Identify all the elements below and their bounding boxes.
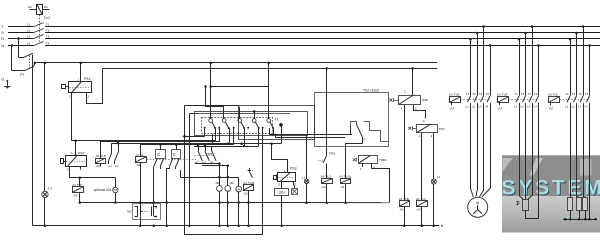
node PT pole2 output — [34, 62, 37, 65]
svg-text:2: 2 — [278, 182, 280, 186]
svg-text:PS3: PS3 — [290, 167, 296, 171]
svg-text:TLG: TLG — [44, 16, 51, 20]
svg-text:L1: L1 — [27, 22, 31, 26]
svg-text:T1: T1 — [46, 22, 50, 26]
svg-text:T2: T2 — [572, 92, 576, 96]
wire heater bottom bus — [563, 219, 597, 221]
TRBs pin 1 — [362, 163, 364, 167]
wire rail B to TRS — [326, 68, 328, 155]
push button PB — [115, 178, 117, 188]
wire selector left feed — [350, 127, 352, 135]
pressure switch PS2 — [66, 156, 87, 167]
svg-text:L1: L1 — [302, 175, 306, 179]
wire T1 node down — [281, 127, 283, 144]
wire PH outputs — [195, 163, 219, 165]
svg-text:2: 2 — [67, 167, 69, 171]
contactor TLR tap wires from bus — [518, 38, 521, 41]
svg-text:L4: L4 — [585, 105, 589, 109]
svg-text:A1: A1 — [44, 5, 48, 9]
svg-text:L2: L2 — [437, 175, 441, 179]
wire TLP lower coil to rail — [79, 192, 81, 202]
wire IGN to N rail — [281, 195, 283, 226]
wire L1 lamp branch — [44, 63, 46, 191]
svg-text:TRS: TRS — [329, 152, 335, 156]
svg-text:L2: L2 — [27, 28, 31, 32]
outline box B around terminal strip — [239, 106, 315, 140]
TRBs pin 2 wire to rail end — [371, 163, 373, 168]
switch PT pole 1 — [19, 57, 24, 59]
box TS2 circuit — [315, 93, 389, 147]
wire TLGs feed — [345, 144, 347, 179]
svg-text:C: C — [157, 152, 160, 157]
wire PS2 pin2 to TLP coil and PB branch — [70, 167, 116, 178]
svg-text:MF: MF — [230, 181, 234, 185]
wire mesh rail to PS2 (y=140.7) — [72, 140, 215, 142]
svg-text:L1: L1 — [109, 164, 113, 168]
svg-text:T4: T4 — [485, 92, 489, 96]
wire mesh rail to BL coil and C contacts (y=144.5) — [140, 144, 234, 146]
svg-text:T4: T4 — [585, 92, 589, 96]
svg-text:L1: L1 — [514, 105, 518, 109]
svg-text:R: R — [1, 37, 4, 41]
junction rail A / strip wire 1 — [209, 62, 212, 65]
svg-text:L3: L3 — [527, 105, 531, 109]
outer enclosure frame left/top — [185, 105, 239, 107]
svg-text:T4: T4 — [46, 41, 50, 45]
indicator ML — [219, 164, 221, 186]
svg-text:L2: L2 — [521, 105, 525, 109]
svg-text:L4: L4 — [27, 41, 31, 45]
junction rail A / strip wire 5 — [267, 62, 270, 65]
wire control rail A (y=62.9) — [35, 62, 437, 64]
wire TRB pin1 to TLB coil — [404, 105, 406, 201]
junction rail A / PS1 — [80, 62, 83, 65]
svg-text:ML: ML — [216, 181, 220, 185]
wire selector output to TLGs rail — [362, 137, 364, 144]
svg-text:1: 1 — [360, 167, 362, 171]
wire PT pole1 output down — [32, 55, 34, 226]
svg-text:T3: T3 — [527, 92, 531, 96]
svg-text:A2: A2 — [136, 163, 140, 167]
wire mesh rail into TS2 box (y=137.6) — [275, 137, 345, 139]
wire rail A to PS1 pin 1 — [80, 63, 82, 82]
svg-text:2: 2 — [415, 106, 417, 110]
outline box A around terminal strip — [195, 112, 308, 136]
svg-text:T: T — [1, 25, 4, 29]
svg-text:T1: T1 — [565, 92, 569, 96]
svg-text:T1: T1 — [466, 92, 470, 96]
switch PT pole 2 — [12, 70, 25, 72]
svg-text:A2: A2 — [341, 185, 345, 189]
heater resistor R1 — [568, 198, 573, 211]
svg-text:T2: T2 — [472, 92, 476, 96]
svg-text:A1 TLG: A1 TLG — [321, 175, 332, 179]
switch C1 — [156, 150, 166, 159]
svg-text:T1: T1 — [514, 92, 518, 96]
contactor TLV tap wires from bus — [569, 38, 572, 41]
wires TLB contacts to motor — [470, 103, 472, 188]
timer TRBs — [353, 158, 356, 161]
float switch PH — [198, 146, 200, 151]
junction on bus N — [11, 44, 14, 47]
burner element box — [523, 200, 529, 211]
svg-text:L4: L4 — [534, 105, 538, 109]
svg-text:L2: L2 — [572, 105, 576, 109]
svg-text:L2: L2 — [472, 105, 476, 109]
svg-text:L3: L3 — [479, 105, 483, 109]
wires TLV contacts down — [570, 104, 572, 198]
svg-text:3: 3 — [87, 94, 89, 98]
svg-text:L3: L3 — [578, 105, 582, 109]
svg-text:M: M — [476, 201, 479, 205]
svg-text:L2: L2 — [115, 164, 119, 168]
motor M — [468, 197, 488, 217]
dashed terminal strip box X1 — [202, 118, 273, 134]
svg-text:T1: T1 — [275, 117, 279, 121]
wire selector right terminal jog — [370, 126, 389, 142]
wire mesh rail to U-loop (y=136.2) — [183, 136, 205, 138]
switch C2 — [172, 150, 181, 159]
junction rail A / L1 branch — [44, 62, 47, 65]
svg-text:PB: PB — [114, 189, 118, 192]
svg-text:N: N — [1, 44, 4, 48]
capacitor C2 — [144, 211, 149, 213]
outline segment C above strip — [198, 113, 290, 115]
wire R tap down to PT — [18, 39, 20, 58]
switch C2 contacts — [170, 159, 173, 167]
strip lower terminal posts — [204, 127, 206, 129]
contactor TLB tap wires from bus — [469, 38, 472, 41]
svg-text:TS2 circuit: TS2 circuit — [363, 89, 379, 93]
mechanical link PT (dashed) — [29, 56, 31, 70]
svg-text:*: * — [252, 169, 254, 173]
mechanical link TLV (dashed) — [560, 99, 589, 101]
svg-text:S: S — [1, 31, 4, 35]
heater resistor R3 — [583, 198, 588, 211]
svg-text:IGN: IGN — [279, 190, 285, 194]
wire to PS2 pin 1 — [75, 141, 77, 155]
svg-text:M: M — [155, 207, 157, 210]
wire lamp branch vertical x=306.6 — [306, 134, 308, 179]
terminal strip contacts 1-5 — [209, 119, 213, 123]
svg-text:A2: A2 — [74, 194, 78, 198]
svg-text:C: C — [423, 119, 426, 123]
svg-text:L3: L3 — [27, 34, 31, 38]
wire mesh rail to TLP contacts (y=143.1) — [112, 143, 230, 145]
svg-text:2: 2 — [431, 134, 433, 138]
svg-text:L1: L1 — [466, 105, 470, 109]
svg-text:L1: L1 — [48, 186, 52, 190]
indicator PBL — [238, 177, 240, 186]
svg-text:C: C — [404, 89, 407, 93]
svg-text:T3: T3 — [479, 92, 483, 96]
contactor coil TLG — [37, 5, 43, 15]
svg-text:1: 1 — [400, 106, 402, 110]
svg-text:A2: A2 — [498, 106, 502, 110]
switch C1 contacts — [154, 159, 157, 167]
capacitor C1 (in BL branch) — [135, 206, 138, 208]
svg-text:A2: A2 — [28, 5, 32, 9]
svg-text:1: 1 — [419, 134, 421, 138]
ignition box IGN — [275, 189, 289, 196]
wire control rail B (y=68.4) — [103, 68, 438, 70]
svg-text:A2: A2 — [96, 164, 100, 168]
wire rail to BL coil — [140, 145, 142, 157]
svg-text:A2: A2 — [400, 208, 404, 212]
wire L1 lamp to N return — [44, 198, 46, 226]
svg-text:T3: T3 — [578, 92, 582, 96]
wire strip feed rail y=86.5 — [210, 86, 269, 88]
svg-text:PT: PT — [20, 73, 24, 77]
svg-text:A2: A2 — [549, 106, 553, 110]
wire N return rail (y=225.8) — [33, 225, 440, 227]
svg-text:T4: T4 — [534, 92, 538, 96]
svg-text:SYSTEM: SYSTEM — [502, 177, 600, 200]
svg-text:A1 TLV: A1 TLV — [548, 93, 559, 97]
wire mesh rail into TS2 box (y=134.7) — [270, 134, 352, 136]
lamp L2 — [431, 179, 436, 184]
mechanical link BL to C contacts (dashed) — [147, 159, 196, 161]
selector switch C in TS2 — [351, 122, 357, 127]
svg-text:MC: MC — [127, 209, 132, 213]
filter block MCT outline — [133, 204, 161, 220]
wire rail to TLP coil — [100, 142, 102, 158]
svg-text:N: N — [441, 224, 444, 228]
svg-text:L1: L1 — [565, 105, 569, 109]
wire control return rail (y=202.6) — [80, 202, 390, 204]
bus line T with TLG contact L1-T1 — [8, 26, 33, 28]
wire mesh rail y=143.7 from staircase to T1 wire — [213, 143, 281, 145]
wire BL coil down through capacitor to N — [140, 162, 142, 207]
svg-text:L4: L4 — [485, 105, 489, 109]
valve glyph — [516, 201, 519, 203]
heater resistor R2 — [577, 198, 582, 211]
svg-text:TRB: TRB — [422, 98, 428, 102]
svg-text:>>1: >>1 — [318, 159, 324, 163]
wire mesh rail to PH (y=146.0) — [194, 146, 259, 148]
wire T1 rail to PS3 — [272, 144, 288, 173]
wire rail B to TRB — [412, 68, 414, 95]
svg-text:A2: A2 — [322, 185, 326, 189]
mechanical link TLR (dashed) — [509, 99, 538, 101]
junction rail B / TRS branch — [325, 67, 328, 70]
svg-text:2: 2 — [69, 95, 71, 99]
mechanical link TLG (dashed) — [39, 15, 41, 44]
svg-text:TRBs: TRBs — [379, 158, 387, 162]
strip feed wire contact 2 — [206, 87, 224, 119]
svg-text:optional 004: optional 004 — [94, 188, 112, 192]
svg-text:A2: A2 — [244, 192, 248, 196]
mechanical link TLB (dashed) — [461, 99, 489, 101]
lamp L1 — [42, 191, 48, 197]
contact TLM aux — [249, 168, 251, 171]
svg-text:C: C — [363, 138, 366, 142]
wire mesh rail to TLP coil (y=141.9) — [100, 141, 219, 143]
strip feed wires from rail A — [210, 63, 212, 119]
svg-text:A1 TLR: A1 TLR — [497, 93, 508, 97]
pressure switch PS1 — [69, 82, 92, 93]
wire lamp to rail — [306, 184, 308, 203]
strip feed wire contact 4 — [254, 112, 256, 119]
svg-text:A2: A2 — [417, 208, 421, 212]
wires resistors to bottom bus — [570, 210, 572, 219]
inner frame left wire to N rail — [189, 114, 191, 226]
svg-text:C: C — [173, 152, 176, 157]
contact TLP aux 2 — [118, 143, 120, 153]
svg-text:M: M — [155, 215, 157, 218]
svg-text:T2: T2 — [521, 92, 525, 96]
junction rail B / TRB branch — [411, 67, 414, 70]
svg-text:1: 1 — [71, 151, 73, 155]
enclosure frame left leg down to bottom — [185, 106, 263, 235]
wires TLR contacts down — [519, 103, 521, 195]
svg-text:T2: T2 — [46, 28, 50, 32]
device W — [294, 186, 296, 189]
lamp L1 (burner) — [304, 179, 309, 184]
svg-text:G: G — [1, 77, 4, 81]
svg-text:A2: A2 — [450, 106, 454, 110]
strip feed wire contact 3 — [239, 107, 241, 119]
wire into TLP lower coil — [79, 178, 81, 187]
wire rail y=177.1 — [181, 177, 239, 179]
junction on bus R — [17, 37, 20, 40]
wire N tap down to PT — [11, 46, 13, 71]
indicator MF — [227, 166, 229, 186]
svg-text:A1 TLB: A1 TLB — [449, 93, 459, 97]
wire mesh rail to lamp (y=134.2) — [273, 134, 306, 136]
wire burner box loop — [526, 211, 539, 219]
svg-text:T3: T3 — [46, 34, 50, 38]
svg-text:PS1: PS1 — [84, 77, 90, 81]
svg-text:PS2: PS2 — [78, 151, 84, 155]
svg-text:TRV: TRV — [439, 127, 446, 131]
pressure switch PS3 — [278, 173, 296, 182]
contact TLP aux 1 — [111, 143, 113, 153]
